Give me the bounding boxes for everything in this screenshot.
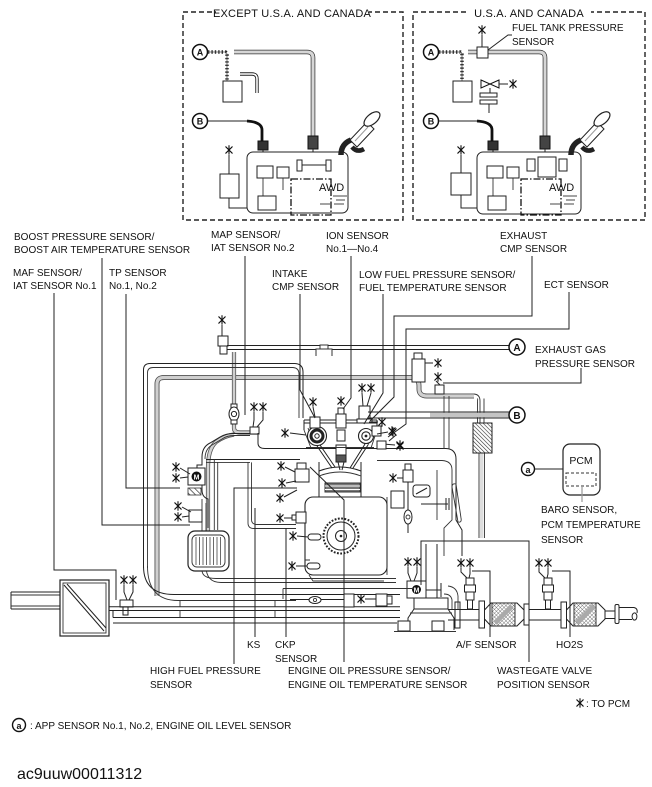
svg-text:HIGH FUEL PRESSURE: HIGH FUEL PRESSURE: [150, 666, 261, 677]
ignition coil left: [310, 417, 320, 428]
fuel tank (left): [247, 152, 348, 213]
fuel hose from B: [208, 120, 247, 122]
turbo downpipe: [394, 544, 460, 632]
svg-text:A: A: [428, 48, 435, 58]
leader HIGH FUEL PRESSURE: [234, 488, 297, 664]
PCM module: [563, 444, 600, 502]
svg-text:BARO SENSOR,: BARO SENSOR,: [541, 505, 617, 516]
fuel level dashes: [320, 196, 347, 204]
svg-text:BOOST PRESSURE SENSOR/: BOOST PRESSURE SENSOR/: [14, 232, 155, 243]
svg-text:No.1, No.2: No.1, No.2: [109, 281, 157, 292]
asterisk above pump module (right): [458, 146, 464, 155]
gray charge pipe intercooler to manifold: [208, 435, 234, 533]
engine block: [305, 497, 387, 575]
label BARO SENSOR PCM TEMPERATURE SENSOR: [541, 505, 641, 546]
fuel tank (right): [477, 152, 581, 214]
svg-text:IAT SENSOR No.1: IAT SENSOR No.1: [13, 281, 97, 292]
oil control valve on block left: [277, 512, 306, 523]
hatched duct joint below throttle: [188, 488, 201, 495]
filler neck (left): [341, 109, 382, 155]
leader LOW FUEL: [364, 294, 383, 424]
boost pressure sensor on elbow: [175, 502, 202, 522]
pump control module box (right): [451, 173, 471, 195]
intake duct rails: [109, 607, 400, 611]
striped evap hose from A: [208, 52, 227, 81]
asterisk to intake pulley: [282, 429, 306, 438]
EGR valve right coil: [357, 384, 374, 423]
engine right cover: [372, 449, 462, 576]
loop bottom corner to rails: [144, 566, 401, 595]
oil line with banjo: [290, 597, 344, 604]
svg-text:MAF SENSOR/: MAF SENSOR/: [13, 268, 82, 279]
valve V braces: [317, 444, 368, 468]
gray purge pipe to tank (right): [468, 52, 545, 137]
svg-text:FUEL TANK PRESSURE: FUEL TANK PRESSURE: [512, 23, 624, 34]
svg-text:PRESSURE SENSOR: PRESSURE SENSOR: [535, 359, 635, 370]
pump rects inside tank (right): [487, 166, 503, 178]
engine oil pressure/temperature sensors: [344, 594, 392, 607]
svg-text:SENSOR: SENSOR: [150, 680, 192, 691]
svg-text:M: M: [194, 475, 200, 482]
exhaust gas pressure sensor canister: [412, 353, 444, 394]
PCV check valve: [413, 485, 449, 510]
exhaust pipe to first converter: [448, 610, 479, 621]
oil filter box: [391, 491, 404, 508]
svg-text:EXCEPT U.S.A. AND CANADA: EXCEPT U.S.A. AND CANADA: [213, 8, 371, 20]
right side solenoid tree: [377, 428, 413, 533]
node A main: [227, 339, 525, 356]
exhaust CMP pulley: [359, 429, 374, 444]
engine left wall outer lower + bottom rails: [202, 499, 396, 579]
gray charge-air loop pipe: [157, 378, 410, 597]
legend a APP SENSOR: [13, 719, 292, 733]
svg-text:BOOST AIR TEMPERATURE SENSOR: BOOST AIR TEMPERATURE SENSOR: [14, 245, 190, 256]
svg-text:IAT SENSOR No.2: IAT SENSOR No.2: [211, 243, 295, 254]
svg-text:ENGINE OIL TEMPERATURE SENSOR: ENGINE OIL TEMPERATURE SENSOR: [288, 680, 467, 691]
intake CMP pulley: [308, 427, 327, 446]
vent hook tube: [240, 74, 257, 93]
dashed enclosure U.S.A. AND CANADA: [413, 5, 645, 220]
leader BOOST: [102, 258, 190, 525]
fuel level dashes (right): [550, 196, 577, 204]
svg-text:A/F SENSOR: A/F SENSOR: [456, 640, 517, 651]
leader ECT: [388, 292, 569, 437]
air cleaner box: [60, 580, 109, 636]
svg-text:POSITION SENSOR: POSITION SENSOR: [497, 680, 590, 691]
MAF sensor on duct: [120, 576, 136, 615]
svg-text:A: A: [513, 343, 520, 354]
purge solenoid valve upper: [218, 316, 228, 354]
svg-text:B: B: [428, 117, 435, 127]
svg-text:: TO PCM: : TO PCM: [586, 699, 630, 710]
oil pan lines: [305, 560, 384, 581]
asterisk above left pump module: [226, 146, 232, 155]
charge-air loop outline: [144, 364, 304, 569]
svg-text:No.1—No.4: No.1—No.4: [326, 244, 379, 255]
cylinder head outline: [304, 420, 377, 430]
MAP sensor square on manifold: [250, 403, 266, 434]
head side walls: [304, 428, 377, 448]
evap canister box (right): [453, 81, 472, 102]
svg-text:EXHAUST GAS: EXHAUST GAS: [535, 345, 606, 356]
node B main: [368, 407, 525, 423]
svg-text:ECT SENSOR: ECT SENSOR: [544, 280, 609, 291]
air intake snorkel: [11, 592, 60, 609]
engine mount oval lower: [289, 562, 320, 571]
leader EXHAUST CMP: [370, 256, 532, 421]
exhaust elbow right of actuator: [444, 586, 458, 609]
pump control module box: [220, 174, 239, 198]
dashed enclosure EXCEPT U.S.A. AND CANADA: [183, 5, 403, 220]
AWD dash-dot box: [291, 179, 331, 215]
head lower boundary double: [206, 461, 250, 463]
oil cooler enclosure top: [283, 589, 414, 600]
svg-text:INTAKE: INTAKE: [272, 269, 308, 280]
svg-text:: APP SENSOR No.1, No.2, ENGIN: : APP SENSOR No.1, No.2, ENGINE OIL LEVE…: [30, 721, 291, 732]
A/F sensor body: [458, 559, 476, 609]
leader ENGINE OIL: [310, 467, 344, 662]
fuel tank pressure sensor square: [477, 47, 488, 58]
vent bowtie valve: [480, 80, 516, 113]
high pressure fuel pump on head left: [277, 462, 309, 503]
lower rail ticks: [180, 601, 275, 618]
flange before main converter: [561, 602, 567, 628]
node B circle (right box): [424, 114, 439, 129]
node A circle (right box): [424, 45, 439, 60]
svg-text:B: B: [197, 117, 204, 127]
tail pipe: [605, 605, 637, 624]
svg-text:CMP SENSOR: CMP SENSOR: [272, 282, 339, 293]
svg-text:SENSOR: SENSOR: [275, 654, 317, 665]
wastegate actuator: [405, 558, 441, 598]
warm-up catalytic converter (A/F): [485, 603, 525, 626]
evap canister box: [223, 81, 242, 102]
leader A/F: [472, 571, 490, 637]
svg-text:ac9uuw00011312: ac9uuw00011312: [17, 766, 142, 783]
leader INTAKE CMP: [300, 294, 315, 418]
svg-text:HO2S: HO2S: [556, 640, 584, 651]
manifold chamber wall: [248, 462, 296, 528]
leader MAP: [244, 256, 246, 415]
svg-text:LOW FUEL PRESSURE SENSOR/: LOW FUEL PRESSURE SENSOR/: [359, 270, 516, 281]
main catalytic converter (HO2S): [567, 603, 606, 626]
svg-text:CMP SENSOR: CMP SENSOR: [500, 244, 567, 255]
leader KS: [254, 508, 256, 637]
leader EXHAUST GAS PRESSURE: [443, 368, 581, 383]
leader to FUEL TANK PRESSURE SENSOR text: [488, 35, 512, 50]
leader TP: [126, 294, 180, 488]
svg-text:AWD: AWD: [549, 182, 574, 194]
gray purge pipe to tank: [234, 52, 313, 137]
EGR cooler hatched: [473, 423, 492, 453]
gray pipe below EGR cooler: [479, 453, 485, 538]
svg-text:ENGINE OIL PRESSURE SENSOR/: ENGINE OIL PRESSURE SENSOR/: [288, 666, 451, 677]
svg-text:PCM TEMPERATURE: PCM TEMPERATURE: [541, 520, 641, 531]
leader ION: [343, 256, 351, 409]
svg-text:PCM: PCM: [569, 455, 592, 467]
tank top unit with wings: [527, 157, 567, 177]
pipe between converters: [529, 610, 566, 621]
leader WASTEGATE: [421, 541, 529, 662]
piping from canister down: [444, 396, 449, 449]
svg-text:FUEL TEMPERATURE SENSOR: FUEL TEMPERATURE SENSOR: [359, 283, 507, 294]
head bottom edge: [306, 447, 374, 449]
pump rects inside tank: [257, 166, 273, 178]
label EXHAUST GAS PRESSURE SENSOR: [535, 345, 635, 370]
cam cover right fitting: [372, 426, 381, 436]
asterisks right of head: [369, 418, 403, 450]
ignition coil center (ION): [336, 397, 346, 428]
svg-text:KS: KS: [247, 640, 261, 651]
node B circle (left box): [193, 114, 208, 129]
svg-text:WASTEGATE VALVE: WASTEGATE VALVE: [497, 666, 593, 677]
throttle body with M motor: [173, 463, 205, 485]
leader HO2S: [552, 571, 570, 637]
HO2S sensor body: [536, 559, 554, 609]
engine left wall with bosses: [197, 457, 208, 528]
svg-text:M: M: [414, 588, 420, 595]
svg-text:A: A: [197, 48, 204, 58]
asterisk left coil: [310, 398, 316, 417]
inline filter on purge hose: [229, 404, 239, 424]
svg-text:SENSOR: SENSOR: [512, 37, 554, 48]
spark plug column: [336, 430, 346, 470]
svg-text:EXHAUST: EXHAUST: [500, 231, 547, 242]
asterisk above FTP sensor: [479, 26, 485, 35]
sender dumbbell: [297, 160, 331, 171]
filler neck (right): [571, 109, 612, 155]
svg-text:ION SENSOR: ION SENSOR: [326, 231, 389, 242]
intake manifold outline: [202, 434, 250, 458]
engine inner wall double: [214, 460, 217, 531]
fuel hose from B (right): [439, 120, 477, 122]
svg-text:U.S.A. AND CANADA: U.S.A. AND CANADA: [474, 8, 584, 20]
svg-text:AWD: AWD: [319, 182, 344, 194]
svg-text:MAP SENSOR/: MAP SENSOR/: [211, 230, 280, 241]
svg-text:B: B: [513, 411, 520, 422]
gray pipe elbow to EGR cooler: [410, 378, 474, 397]
hose connector dark (right): [540, 136, 550, 149]
leader MAF: [54, 293, 116, 600]
node a circle: [522, 463, 564, 476]
front flange: [479, 601, 485, 628]
cylinder walls and piston: [319, 462, 361, 497]
hose connector dark: [308, 136, 318, 149]
clip bracket on A hose: [316, 345, 332, 356]
leader CKP: [285, 528, 287, 637]
legend TO PCM: [577, 699, 630, 710]
node A circle (left box): [193, 45, 208, 60]
gray purge hose: [234, 352, 258, 433]
svg-text:TP SENSOR: TP SENSOR: [109, 268, 167, 279]
engine mount oval upper: [290, 532, 321, 541]
mid flange: [524, 604, 529, 625]
svg-text:CKP: CKP: [275, 640, 296, 651]
intercooler: [188, 531, 229, 571]
AWD dash-dot box (right): [521, 179, 561, 215]
svg-text:SENSOR: SENSOR: [541, 535, 583, 546]
striped evap hose from A (right): [439, 52, 462, 81]
